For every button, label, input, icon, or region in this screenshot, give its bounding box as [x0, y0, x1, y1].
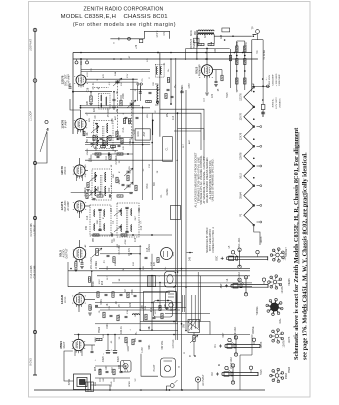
- svg-text:C9 .05: C9 .05: [103, 138, 105, 145]
- svg-text:12AT6: 12AT6: [288, 336, 291, 343]
- svg-text:C40: C40: [121, 329, 123, 334]
- antenna junction C: [33, 330, 36, 333]
- svg-text:22K: 22K: [93, 107, 96, 112]
- svg-text:100K: 100K: [112, 118, 114, 124]
- svg-text:1ST IF ADJ.: 1ST IF ADJ.: [230, 356, 233, 369]
- svg-text:50MF: 50MF: [117, 355, 120, 362]
- svg-text:AVC: AVC: [188, 139, 191, 144]
- svg-text:DRIVE: DRIVE: [253, 326, 255, 333]
- resistor R2 osc: [90, 96, 92, 102]
- svg-text:1.5V: 1.5V: [127, 73, 129, 78]
- IF transformer T2 dashed box: [90, 205, 111, 236]
- svg-text:TUNING: TUNING: [257, 306, 259, 315]
- svg-text:C13: C13: [173, 115, 175, 120]
- svg-text:IF AMP: IF AMP: [65, 120, 68, 129]
- svg-text:12D76: 12D76: [239, 93, 242, 101]
- svg-text:1K: 1K: [107, 303, 109, 306]
- ladder R a3: [236, 78, 238, 84]
- wire V8 bottom: [206, 76, 208, 92]
- T2 coils: [94, 210, 95, 212]
- svg-text:SOCKET: SOCKET: [286, 247, 288, 257]
- svg-text:161: 161: [80, 60, 83, 65]
- svg-text:47K: 47K: [120, 134, 122, 139]
- bus mid C: [97, 275, 250, 277]
- svg-text:470K: 470K: [125, 239, 127, 245]
- svg-text:R19: R19: [151, 307, 153, 312]
- svg-text:ANT: ANT: [220, 283, 223, 288]
- svg-text:TP: TP: [252, 26, 255, 29]
- svg-text:R25: R25: [95, 366, 97, 371]
- svg-text:35W4: 35W4: [239, 192, 242, 199]
- tube V8 50L5 PWR AMP: [201, 65, 212, 76]
- V6 parts: [89, 305, 91, 311]
- wire right angle: [240, 335, 252, 356]
- wire y378 bottom: [95, 377, 130, 379]
- branch terminal: [45, 120, 48, 123]
- wire V6 top link: [78, 292, 80, 294]
- svg-text:.05 600V: .05 600V: [108, 108, 110, 118]
- cluster under V2 row: [93, 136, 95, 141]
- svg-text:+ -: + -: [265, 77, 268, 80]
- wire y330.5: [140, 330, 178, 332]
- resistor R20 arrow: [193, 336, 195, 342]
- svg-text:98V: 98V: [89, 118, 91, 122]
- svg-text:12K76: 12K76: [261, 341, 263, 348]
- antenna terminal top: [33, 28, 37, 32]
- svg-text:B GND: B GND: [30, 358, 33, 366]
- junction circles x138-141: [137, 83, 139, 85]
- tick y38.8: [118, 37, 120, 40]
- resistor row above V8: [198, 43, 204, 45]
- bus vertical x142.6: [142, 106, 144, 200]
- socket V5 diagram: [275, 374, 279, 378]
- svg-text:470K: 470K: [100, 299, 103, 305]
- svg-text:C14: C14: [87, 215, 89, 220]
- wire V1 bottom bus: [73, 91, 113, 93]
- volume arrow: [92, 248, 102, 257]
- svg-text:B-: B-: [177, 159, 179, 161]
- svg-text:117V: 117V: [141, 347, 144, 353]
- svg-text:12K76: 12K76: [239, 132, 242, 140]
- resistor R17 surge: [96, 338, 102, 340]
- svg-text:C1B 10-365: C1B 10-365: [34, 265, 37, 278]
- adjust shaft A3: [225, 344, 260, 346]
- junction dots pass: [80, 52, 82, 54]
- svg-text:10M: 10M: [115, 262, 117, 266]
- parts on y235: [93, 234, 99, 236]
- wire V1 top bus link: [81, 69, 150, 71]
- wire det row: [100, 253, 140, 255]
- cap C20: [215, 80, 218, 82]
- solid box AM rod: [135, 129, 150, 140]
- wire V1 plate A: [86, 78, 138, 80]
- svg-text:see page 176. Models C845L, M: see page 176. Models C845L, M, W, Y, Cha…: [302, 152, 309, 360]
- vertical x140 det: [139, 245, 141, 270]
- wire bus y334.5: [74, 334, 250, 336]
- row y144.6: [85, 144, 150, 146]
- svg-text:C22: C22: [130, 302, 132, 307]
- wire V1 to bus: [80, 59, 82, 70]
- wire top bus B: [73, 58, 258, 60]
- svg-text:12K76: 12K76: [281, 286, 284, 294]
- margin underline L2 part2: [306, 193, 308, 235]
- svg-text:1.5K: 1.5K: [127, 309, 129, 314]
- cap C13: [81, 262, 84, 264]
- svg-text:120V: 120V: [125, 366, 127, 372]
- wire to speaker: [64, 351, 74, 381]
- svg-text:VIEWS: VIEWS: [289, 278, 291, 286]
- heater chain top link: [253, 84, 255, 87]
- wire V4 plate: [85, 205, 90, 207]
- V3 bias parts: [87, 183, 89, 188]
- wire y302.5: [95, 302, 182, 304]
- wire y313.5: [165, 313, 210, 315]
- T2 core: [99, 210, 101, 231]
- antenna bottom tick: [33, 374, 37, 376]
- bottom bus: [34, 389, 265, 391]
- svg-text:220K: 220K: [123, 93, 125, 99]
- volume control R10: [96, 249, 99, 256]
- wire V5 top: [79, 240, 81, 247]
- svg-text:ROD: ROD: [137, 131, 140, 137]
- ladder R a2: [236, 59, 238, 65]
- svg-text:47K: 47K: [154, 261, 156, 266]
- wire y48.5: [186, 48, 230, 50]
- inner parts: [159, 306, 161, 311]
- AVC dashed wire: [94, 86, 109, 88]
- osc cap C4: [113, 98, 116, 100]
- big rect bottom mid: [144, 292, 177, 322]
- svg-text:OSC: OSC: [147, 183, 149, 188]
- svg-text:2.2M: 2.2M: [90, 190, 93, 195]
- socket V4 diagram: [275, 334, 279, 338]
- wire long y160: [85, 159, 172, 161]
- extra resistors dense zone: [123, 119, 125, 124]
- tuning gang dashed link: [117, 80, 119, 140]
- wire left riser x73: [72, 53, 74, 135]
- svg-text:2ND IF ADJ.: 2ND IF ADJ.: [234, 326, 237, 339]
- T4 leads: [196, 31, 198, 47]
- svg-text:VC: VC: [135, 378, 137, 381]
- terminal circle right: [256, 30, 260, 34]
- junction V8: [206, 48, 208, 50]
- vertical links mid: [139, 268, 141, 330]
- wire V2 top loop: [70, 99, 81, 119]
- svg-text:C42: C42: [119, 364, 121, 369]
- svg-text:98V: 98V: [167, 112, 169, 117]
- svg-text:RECT: RECT: [63, 341, 66, 348]
- adjust shaft A4: [222, 372, 258, 374]
- svg-text:VOL 1MEG: VOL 1MEG: [90, 257, 93, 269]
- ac plug: [167, 386, 171, 390]
- svg-text:22K: 22K: [87, 100, 89, 105]
- svg-text:117V. 60CY: 117V. 60CY: [276, 97, 278, 109]
- pilot lamp P2 on bus: [86, 61, 89, 64]
- bus vertical x152.2: [151, 113, 153, 200]
- vertical x251.8: [251, 40, 253, 92]
- circle component right: [161, 248, 173, 260]
- wire y137.5: [86, 137, 133, 139]
- svg-text:455: 455: [85, 225, 88, 230]
- resistor on x91.8: [88, 277, 90, 283]
- wire V2 top right: [81, 107, 151, 109]
- svg-text:OUTPUT: OUTPUT: [66, 248, 69, 259]
- V4 diode parts: [86, 194, 88, 199]
- margin underline L1 part2: [298, 132, 300, 172]
- small dashed box on x160: [155, 64, 164, 77]
- loop antenna lead: [34, 28, 36, 375]
- heater chain bottom: [254, 225, 260, 245]
- antenna junction B2: [33, 216, 36, 219]
- ladder dots: [236, 55, 238, 57]
- adjust shaft A1: [227, 256, 268, 258]
- wire V8 plate: [213, 69, 222, 71]
- wire step right D: [174, 130, 201, 132]
- vertical x71 link: [67, 262, 69, 287]
- switch box 3 with pilot: [161, 358, 176, 377]
- svg-text:SPKR: SPKR: [129, 381, 131, 387]
- bus vertical x133: [132, 79, 134, 185]
- junction right: [262, 85, 264, 87]
- osc coil windings: [101, 95, 102, 97]
- svg-text:C1A 10-365: C1A 10-365: [30, 265, 33, 278]
- extra parts above T2b: [103, 141, 105, 146]
- output transformer T4 windings: [198, 30, 200, 31]
- V7 pin stubs down: [74, 350, 76, 356]
- osc coil bumps: [157, 85, 158, 88]
- svg-text:ZENITH RADIO CORPORATION: ZENITH RADIO CORPORATION: [84, 7, 164, 13]
- switch hatch: [188, 320, 190, 323]
- junction V2 top: [80, 107, 82, 109]
- svg-text:220: 220: [214, 48, 217, 53]
- mid components y150-160: [95, 153, 101, 155]
- svg-text:C4A: C4A: [114, 71, 117, 76]
- electrolytic stack wire: [262, 110, 264, 118]
- margin underline L2 part1: [306, 240, 308, 311]
- svg-text:3RD: 3RD: [97, 219, 99, 224]
- svg-text:1200: 1200: [127, 341, 129, 347]
- svg-text:25MA DC: 25MA DC: [278, 98, 281, 108]
- svg-text:+78: +78: [135, 44, 138, 49]
- resistor R22: [221, 75, 223, 81]
- socket V1 diagram: [276, 253, 280, 257]
- wire speaker bottom: [91, 385, 111, 390]
- wire stub x196.9: [196, 30, 198, 59]
- terminal circle y38.8: [128, 37, 131, 40]
- wire y310: [100, 309, 180, 311]
- svg-text:125V: 125V: [95, 337, 97, 343]
- wire step right C: [178, 129, 205, 161]
- tube V6 12AU6 AFC: [74, 294, 85, 305]
- tube V4 12AT6 det AVC AF: [74, 201, 84, 211]
- T1 core: [102, 126, 104, 145]
- wire top bus A: [73, 52, 252, 54]
- switch box 1: [165, 272, 177, 288]
- svg-text:PWR AMP: PWR AMP: [199, 64, 202, 76]
- cluster right of T2b: [116, 177, 118, 183]
- svg-text:ANT: ANT: [143, 131, 146, 136]
- svg-text:100K: 100K: [119, 179, 121, 185]
- wire hook right: [200, 322, 210, 335]
- svg-text:L1 LOOP: L1 LOOP: [30, 111, 33, 121]
- ladder R b1: [244, 46, 246, 52]
- svg-text:C40B 50MF: C40B 50MF: [279, 74, 281, 86]
- tuning assembly rect: [163, 137, 173, 162]
- component +78: [139, 39, 142, 42]
- vertical x91.8 link: [91, 271, 93, 287]
- parts x147-158: [149, 91, 152, 93]
- svg-text:OSC: OSC: [216, 255, 219, 260]
- svg-text:117V AC: 117V AC: [172, 339, 175, 348]
- T2b trim arrows: [89, 175, 97, 182]
- svg-text:CONNECTED THRU .1: CONNECTED THRU .1: [212, 227, 215, 253]
- bottom parts near x150: [146, 100, 152, 102]
- wire V7 plate: [84, 344, 95, 346]
- svg-text:50L5: 50L5: [239, 172, 242, 178]
- wire top right y36.2: [214, 35, 252, 37]
- bus vertical x174: [175, 58, 177, 340]
- switch box 2: [166, 291, 177, 310]
- cap C15: [105, 293, 108, 295]
- svg-text:A.F.C.: A.F.C.: [64, 296, 67, 303]
- wire V1 top: [80, 70, 82, 75]
- wire antenna branch: [37, 132, 47, 163]
- svg-text:50L5: 50L5: [227, 92, 229, 98]
- cap far top right: [180, 90, 183, 92]
- wire y321.5: [140, 321, 200, 323]
- wire V6 down: [78, 305, 80, 312]
- T3 caps: [125, 206, 128, 208]
- ladder wire x244.8: [244, 41, 246, 90]
- svg-text:GANG: GANG: [166, 188, 169, 195]
- svg-text:R30: R30: [237, 41, 239, 46]
- svg-text:121V: 121V: [99, 279, 101, 285]
- T1 coils: [97, 123, 98, 125]
- T2b core: [100, 175, 102, 194]
- speaker core: [80, 380, 86, 385]
- tube V7 35W4 rect: [73, 339, 84, 350]
- svg-text:(For other models see right ma: (For other models see right margin): [73, 22, 176, 28]
- cluster top of bus bundle: [165, 94, 167, 99]
- svg-text:115V: 115V: [189, 83, 191, 89]
- svg-text:IN: IN: [219, 364, 221, 367]
- more parts: [127, 292, 129, 298]
- wire V3 top: [79, 158, 81, 165]
- cluster y312-328: [103, 312, 105, 318]
- svg-text:C1A: C1A: [122, 127, 125, 132]
- svg-text:150K: 150K: [132, 289, 134, 295]
- wire V1 plate B: [86, 81, 138, 83]
- interlock box bottom left: [86, 382, 94, 392]
- svg-text:12D76: 12D76: [261, 236, 263, 243]
- IF transformer T3 dashed box: [117, 203, 139, 237]
- wire step right B: [85, 113, 201, 150]
- svg-text:40MF: 40MF: [102, 355, 105, 362]
- trimmer cluster mid: [124, 168, 133, 176]
- wire switch drop: [193, 333, 195, 336]
- svg-text:C40A 40MF: C40A 40MF: [271, 74, 274, 86]
- svg-text:AVC: AVC: [181, 84, 184, 89]
- svg-text:R21: R21: [196, 36, 199, 41]
- IF can T1 dashed box: [94, 120, 113, 148]
- terminal TP: [253, 33, 257, 35]
- svg-text:C2 ANT 365: C2 ANT 365: [30, 223, 33, 237]
- svg-text:C5 .01: C5 .01: [93, 82, 95, 89]
- svg-text:470K: 470K: [93, 281, 95, 287]
- svg-text:TO SPKR: TO SPKR: [264, 50, 266, 60]
- V5 cathode parts: [75, 262, 77, 268]
- svg-text:AF AMP: AF AMP: [67, 201, 70, 211]
- filter cap C40B: [114, 335, 116, 351]
- wire x171 drop: [170, 59, 172, 104]
- ladder wire x236.8: [236, 41, 238, 90]
- svg-text:DIAL: DIAL: [279, 318, 282, 324]
- heater side ticks: [257, 126, 260, 128]
- svg-text:2ND: 2ND: [139, 207, 141, 212]
- verticals x182-195: [182, 295, 184, 312]
- svg-text:250K: 250K: [98, 186, 100, 192]
- svg-text:2.2 MEG: 2.2 MEG: [116, 155, 118, 164]
- T2b coils: [95, 172, 96, 174]
- svg-text:C18: C18: [147, 247, 149, 252]
- resistor on x263: [261, 105, 265, 110]
- cap C16: [120, 293, 123, 295]
- svg-text:12K76: 12K76: [239, 113, 242, 121]
- vert pair x198-200: [197, 272, 199, 328]
- adjust shaft A2: [231, 283, 268, 285]
- V2 pin stubs: [77, 130, 79, 135]
- svg-text:2ND: 2ND: [113, 173, 115, 178]
- svg-text:L1 PRI 8T: L1 PRI 8T: [34, 224, 37, 235]
- svg-text:UNLESS OTHERWISE SPECIFIED.: UNLESS OTHERWISE SPECIFIED.: [211, 158, 215, 201]
- svg-text:PILOT: PILOT: [153, 364, 156, 371]
- antenna junction B: [33, 161, 36, 164]
- svg-text:ANT. ADJ.: ANT. ADJ.: [238, 271, 241, 282]
- wire y307.5: [95, 307, 186, 309]
- wire y235: [91, 234, 172, 236]
- wire V6 plate: [84, 299, 95, 301]
- pilot lamp P1 on bus: [75, 61, 78, 64]
- svg-text:PRI: PRI: [195, 31, 197, 35]
- wire y292.4: [79, 291, 170, 293]
- speaker inner box: [77, 378, 87, 387]
- padder caps: [125, 116, 128, 118]
- svg-text:C16: C16: [135, 237, 137, 242]
- wire V3 plate: [85, 170, 88, 172]
- svg-text:47K: 47K: [103, 74, 105, 78]
- wire y150 segment: [85, 150, 118, 152]
- wire right top h: [252, 85, 270, 87]
- svg-text:1ST: 1ST: [111, 207, 113, 212]
- T4 core: [198, 32, 214, 34]
- wire x230.5 vertical: [230, 49, 232, 88]
- svg-text:33K: 33K: [165, 303, 167, 308]
- svg-text:3.3 MEG: 3.3 MEG: [85, 187, 87, 196]
- margin underline L1 part1: [298, 178, 300, 264]
- svg-text:2.2M: 2.2M: [129, 119, 131, 124]
- tall box x170-180: [171, 206, 181, 220]
- coupling parts: [107, 254, 110, 256]
- svg-text:117V: 117V: [155, 309, 157, 314]
- svg-text:-1V: -1V: [85, 174, 87, 178]
- on-off switch: [188, 320, 200, 333]
- svg-text:VC: VC: [257, 50, 259, 54]
- IF can T2b dashed box: [92, 169, 112, 200]
- svg-text:50L5: 50L5: [261, 369, 263, 375]
- vert x152.8 upper: [152, 120, 154, 135]
- svg-text:AVC: AVC: [114, 115, 117, 120]
- wire bottom right riser: [239, 355, 241, 390]
